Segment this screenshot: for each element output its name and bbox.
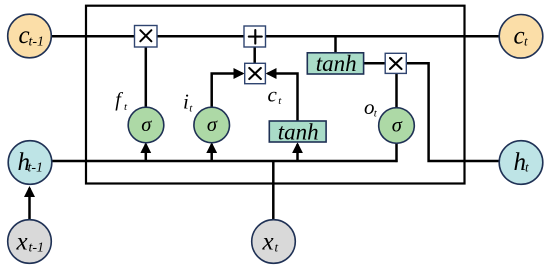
svg-text:x: x bbox=[16, 229, 28, 256]
wire: sigma o down to h-line bbox=[395, 142, 398, 162]
wire: arrow up from h-line into sigma f bbox=[145, 144, 148, 161]
wire: plus box down to x2 box bbox=[253, 46, 256, 64]
node x_t bbox=[252, 220, 296, 264]
svg-text:t-1: t-1 bbox=[29, 34, 45, 49]
svg-text:t: t bbox=[524, 34, 528, 49]
wire: x1 box down to sigma f bbox=[145, 46, 148, 107]
wire: tanh top box to x3 box bbox=[363, 62, 386, 65]
op plus box on c-line bbox=[244, 26, 266, 47]
svg-text:σ: σ bbox=[207, 114, 218, 136]
svg-text:t-1: t-1 bbox=[28, 161, 44, 176]
svg-text:t: t bbox=[278, 95, 282, 107]
gate sigma i bbox=[194, 107, 230, 143]
svg-text:i: i bbox=[183, 90, 189, 114]
wire: arrow up from h-line into sigma i bbox=[210, 144, 213, 161]
svg-text:t: t bbox=[374, 107, 378, 119]
tanh box top (cell output activation) bbox=[307, 51, 363, 76]
svg-text:x: x bbox=[262, 229, 274, 256]
wire: c-line from c_t-1 to c_t bbox=[50, 35, 500, 38]
node h_t-1 bbox=[8, 141, 52, 185]
wire: x3 box down to sigma o bbox=[395, 73, 398, 109]
label c_t (candidate) bbox=[268, 82, 283, 107]
svg-text:σ: σ bbox=[141, 114, 152, 136]
op multiply box 1 on c-line bbox=[135, 26, 158, 48]
gate sigma o bbox=[379, 108, 415, 144]
svg-text:tanh: tanh bbox=[278, 120, 319, 145]
gate sigma f bbox=[128, 107, 164, 143]
wire: x_t up to h-line bbox=[272, 161, 275, 219]
svg-text:c: c bbox=[514, 22, 525, 49]
svg-text:c: c bbox=[268, 82, 278, 106]
node x_t-1 bbox=[8, 220, 52, 264]
op multiply box 3 (output) bbox=[385, 53, 406, 73]
wire: bottom tanh up and left into x2 box (arrow) bbox=[268, 74, 298, 122]
svg-text:f: f bbox=[115, 89, 123, 111]
wire: x3 box right then down to h-line then right to h_t bbox=[406, 63, 500, 161]
svg-text:σ: σ bbox=[392, 114, 403, 136]
op multiply box 2 (cell update) bbox=[245, 63, 266, 83]
label i_t bbox=[183, 90, 193, 115]
wire: h-line from h_t-1 to sigma o corner bbox=[50, 160, 398, 163]
label o_t bbox=[364, 95, 378, 120]
svg-text:t-1: t-1 bbox=[29, 241, 45, 256]
svg-text:t: t bbox=[275, 240, 279, 255]
node c_t bbox=[499, 15, 543, 59]
svg-text:t: t bbox=[525, 160, 529, 175]
node h_t bbox=[499, 141, 543, 185]
svg-text:t: t bbox=[124, 101, 128, 113]
label f_t bbox=[115, 89, 128, 113]
tanh box bottom (candidate activation) bbox=[269, 120, 326, 145]
LSTM cell boundary rectangle bbox=[86, 6, 465, 184]
wire: sigma i up and right into x2 box (arrow) bbox=[212, 74, 243, 108]
svg-text:tanh: tanh bbox=[316, 51, 357, 76]
svg-text:t: t bbox=[189, 103, 193, 115]
wire: branch from c-line down to tanh top box bbox=[334, 36, 337, 54]
node c_t-1 bbox=[8, 14, 52, 58]
wire: arrow from x_t-1 up into h_t-1 bbox=[28, 188, 31, 220]
wire: arrow up from h-line into bottom tanh bbox=[296, 144, 299, 161]
